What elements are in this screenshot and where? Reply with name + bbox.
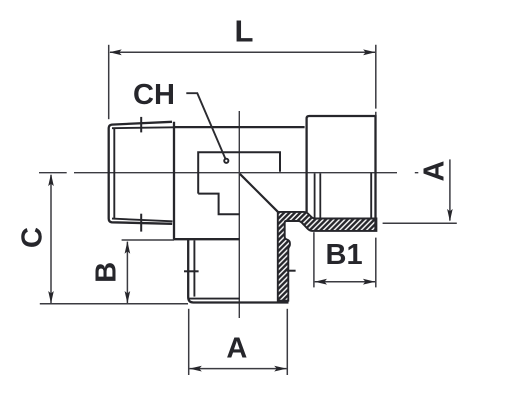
C/B bottom extension line [40, 303, 188, 305]
dimension B arrow down [125, 291, 131, 304]
dimension A arrow left [189, 366, 202, 372]
dimension C line [50, 175, 52, 303]
svg-text:CH: CH [133, 79, 175, 111]
bottom male thread outer silhouette [188, 239, 288, 302]
dimension L arrow right [363, 49, 376, 55]
dimension A bottom line [190, 368, 287, 370]
dimension A bottom extension left [188, 309, 190, 375]
svg-text:C: C [17, 227, 49, 248]
chamfer diagonal [240, 174, 278, 212]
svg-text:A: A [226, 333, 247, 365]
left male thread outer silhouette [109, 122, 173, 224]
dimension B1 extension left [313, 232, 315, 287]
dimension B1 arrow right [363, 279, 376, 285]
hex flat outline steps [198, 194, 239, 215]
CH leader line [186, 93, 225, 159]
svg-text:A: A [419, 160, 451, 181]
dimension C arrow down [48, 291, 54, 304]
dimension A bottom extension right [286, 309, 288, 375]
hex top edge [174, 126, 305, 128]
dimension B1 line [315, 281, 376, 283]
dimension L extension left [108, 45, 110, 119]
svg-text:B1: B1 [326, 239, 363, 271]
right arm face chamfer line [370, 173, 372, 219]
svg-text:B: B [91, 262, 123, 283]
bottom male thread chamfer line [193, 240, 195, 296]
horizontal centerline [39, 172, 418, 174]
left thread tick top [140, 117, 142, 132]
svg-text:L: L [235, 14, 254, 49]
dimension A arrow right [274, 366, 287, 372]
dimension B arrow up [125, 241, 131, 254]
vertical centerline [238, 111, 240, 318]
right arm face and top edge [307, 116, 376, 231]
dimension A right line [449, 159, 451, 220]
left male thread root line top [112, 126, 173, 129]
dimension A right arrow down [447, 209, 453, 222]
dimension C arrow up [48, 174, 54, 187]
right port thread end lines [315, 173, 321, 218]
left male thread chamfer line [113, 128, 115, 219]
dimension B line [126, 242, 128, 303]
dimension A right extension [383, 222, 457, 224]
left thread tick bottom [140, 214, 142, 232]
bottom male thread root line [190, 298, 240, 300]
dimension L line [110, 51, 375, 53]
hex flat outline upper [198, 152, 280, 193]
left male thread root line bottom [112, 219, 173, 222]
dimension B1 arrow left [315, 279, 328, 285]
bottom thread tick left [184, 270, 199, 272]
dimension B extension top [122, 239, 174, 241]
body shoulder and hex bottom step [174, 122, 240, 239]
bottom thread tick right [287, 270, 296, 272]
dimension L extension right column [375, 45, 377, 288]
CH leader dot [224, 159, 228, 163]
dimension L arrow left [109, 49, 122, 55]
sectioned wall hatch region [278, 212, 377, 301]
